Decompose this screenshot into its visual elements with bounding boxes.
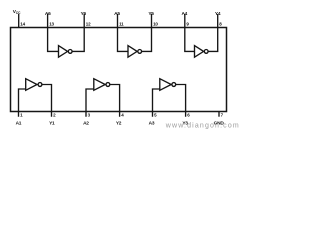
svg-text:5: 5 xyxy=(154,113,157,118)
svg-text:A3: A3 xyxy=(149,121,155,127)
svg-text:11: 11 xyxy=(119,21,124,26)
svg-text:8: 8 xyxy=(219,21,222,26)
svg-text:3: 3 xyxy=(88,113,91,118)
svg-text:Y6: Y6 xyxy=(81,11,87,17)
inverter gate U1F triangle (A6->Y6) xyxy=(59,46,68,58)
pin 4 Y2 wire xyxy=(110,85,120,117)
pin 6 Y3 wire xyxy=(176,85,186,117)
svg-text:www.diangon.com: www.diangon.com xyxy=(165,122,240,129)
pin 10 Y5 wire xyxy=(142,14,152,51)
svg-text:A5: A5 xyxy=(114,11,120,17)
pin 8 Y4 wire xyxy=(208,14,218,51)
svg-text:Y1: Y1 xyxy=(49,121,55,127)
inverter gate U1C bubble xyxy=(172,83,176,87)
svg-text:A1: A1 xyxy=(16,121,22,127)
pin 1 A1 wire xyxy=(19,89,26,117)
pin 13 A6 wire xyxy=(48,14,59,51)
svg-text:1: 1 xyxy=(20,113,23,118)
svg-text:7: 7 xyxy=(221,113,224,118)
svg-text:A2: A2 xyxy=(83,121,89,127)
svg-text:Y4: Y4 xyxy=(215,11,221,17)
inverter gate U1A bubble xyxy=(38,83,42,87)
svg-text:13: 13 xyxy=(49,21,54,26)
inverter gate U1B bubble xyxy=(106,83,110,87)
pin 12 Y6 wire xyxy=(72,14,84,51)
svg-text:12: 12 xyxy=(86,21,91,26)
pin 11 A5 wire xyxy=(118,14,129,51)
inverter gate U1E bubble xyxy=(138,50,142,54)
svg-text:2: 2 xyxy=(53,113,56,118)
pin 2 Y1 wire xyxy=(42,85,52,117)
svg-text:14: 14 xyxy=(20,21,25,26)
svg-text:Y2: Y2 xyxy=(116,121,122,127)
inverter gate U1B triangle (A2->Y2) xyxy=(94,79,105,91)
svg-text:A6: A6 xyxy=(45,11,51,17)
svg-text:10: 10 xyxy=(153,21,158,26)
svg-text:9: 9 xyxy=(186,21,189,26)
inverter gate U1F bubble xyxy=(68,50,72,54)
inverter gate U1D triangle (A4->Y4) xyxy=(195,46,204,58)
inverter gate U1C triangle (A3->Y3) xyxy=(160,79,171,91)
pin 9 A4 wire xyxy=(185,14,195,51)
svg-text:4: 4 xyxy=(121,113,124,118)
pin 7 GND wire xyxy=(218,112,220,117)
svg-text:VCC: VCC xyxy=(13,9,21,15)
pin 5 A3 wire xyxy=(153,89,160,117)
svg-text:A4: A4 xyxy=(181,11,187,17)
inverter gate U1D bubble xyxy=(204,50,208,54)
IC package outline U1 xyxy=(11,28,227,112)
pin 3 A2 wire xyxy=(86,89,94,117)
svg-text:6: 6 xyxy=(187,113,190,118)
inverter gate U1E triangle (A5->Y5) xyxy=(128,46,137,58)
pin 14 Vcc wire xyxy=(18,14,20,28)
svg-text:Y5: Y5 xyxy=(148,11,154,17)
inverter gate U1A triangle (A1->Y1) xyxy=(26,79,37,91)
